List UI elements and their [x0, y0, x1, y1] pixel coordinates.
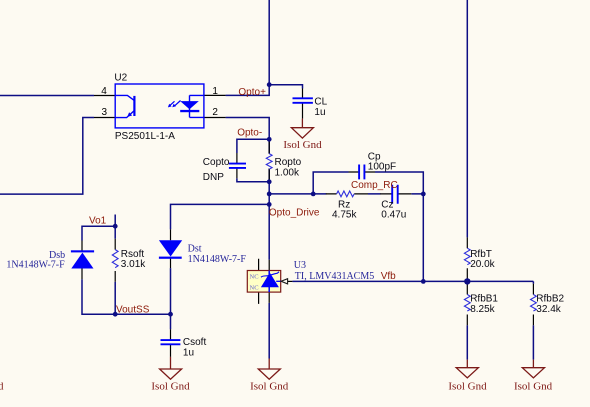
svg-text:Comp_RC: Comp_RC [351, 180, 398, 191]
svg-text:3: 3 [102, 107, 108, 118]
svg-text:Isol Gnd: Isol Gnd [151, 381, 190, 393]
svg-text:4.75k: 4.75k [332, 210, 357, 221]
svg-text:2: 2 [212, 107, 218, 118]
svg-text:NC: NC [250, 284, 259, 291]
svg-text:100pF: 100pF [368, 162, 396, 173]
svg-text:Vfb: Vfb [381, 271, 396, 282]
svg-text:Opto_Drive: Opto_Drive [269, 208, 320, 219]
svg-text:U3: U3 [294, 260, 306, 271]
svg-text:Isol Gnd: Isol Gnd [0, 381, 4, 393]
svg-text:1u: 1u [314, 107, 325, 118]
svg-text:32.4k: 32.4k [536, 304, 561, 315]
svg-text:TI, LMV431ACM5: TI, LMV431ACM5 [295, 271, 374, 282]
svg-text:VoutSS: VoutSS [116, 304, 150, 315]
svg-text:Isol Gnd: Isol Gnd [514, 380, 553, 392]
svg-text:DNP: DNP [203, 172, 224, 183]
svg-text:PS2501L-1-A: PS2501L-1-A [115, 131, 175, 142]
svg-text:Isol Gnd: Isol Gnd [283, 139, 322, 151]
svg-text:Isol Gnd: Isol Gnd [250, 381, 289, 393]
svg-text:Opto-: Opto- [237, 128, 262, 139]
svg-text:Copto: Copto [203, 157, 230, 168]
svg-text:U2: U2 [114, 73, 127, 84]
svg-text:20.0k: 20.0k [470, 259, 495, 270]
svg-text:1N4148W-7-F: 1N4148W-7-F [188, 254, 247, 265]
svg-text:Opto+: Opto+ [238, 87, 266, 98]
svg-text:3.01k: 3.01k [121, 259, 146, 270]
svg-text:Isol Gnd: Isol Gnd [448, 380, 487, 392]
svg-text:Vo1: Vo1 [89, 216, 107, 227]
svg-text:NC: NC [250, 274, 259, 281]
svg-text:1u: 1u [183, 348, 194, 359]
svg-text:8.25k: 8.25k [470, 304, 495, 315]
svg-text:CL: CL [314, 97, 327, 108]
svg-text:1: 1 [212, 86, 218, 97]
svg-text:0.47u: 0.47u [381, 210, 406, 221]
svg-text:1.00k: 1.00k [275, 167, 300, 178]
svg-text:4: 4 [101, 86, 107, 97]
svg-text:1N4148W-7-F: 1N4148W-7-F [6, 260, 65, 271]
